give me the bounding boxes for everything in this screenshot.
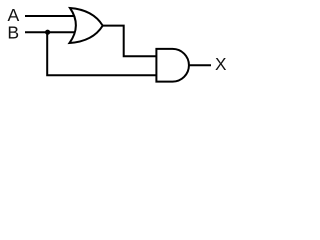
input label A: [8, 5, 20, 25]
wire A input to OR gate: [25, 15, 74, 17]
junction dot on wire B: [45, 30, 50, 35]
wire OR gate output down to AND gate upper input: [103, 26, 157, 57]
wire AND gate output: [189, 64, 211, 66]
svg-text:X: X: [215, 54, 227, 74]
output label X: [215, 54, 227, 74]
OR gate U1: [70, 8, 103, 43]
wire B input to OR gate: [25, 31, 74, 33]
AND gate U2: [156, 49, 189, 82]
input label B: [7, 22, 19, 42]
svg-text:B: B: [7, 22, 19, 42]
wire B branch down and right to AND gate lower input: [47, 32, 157, 75]
